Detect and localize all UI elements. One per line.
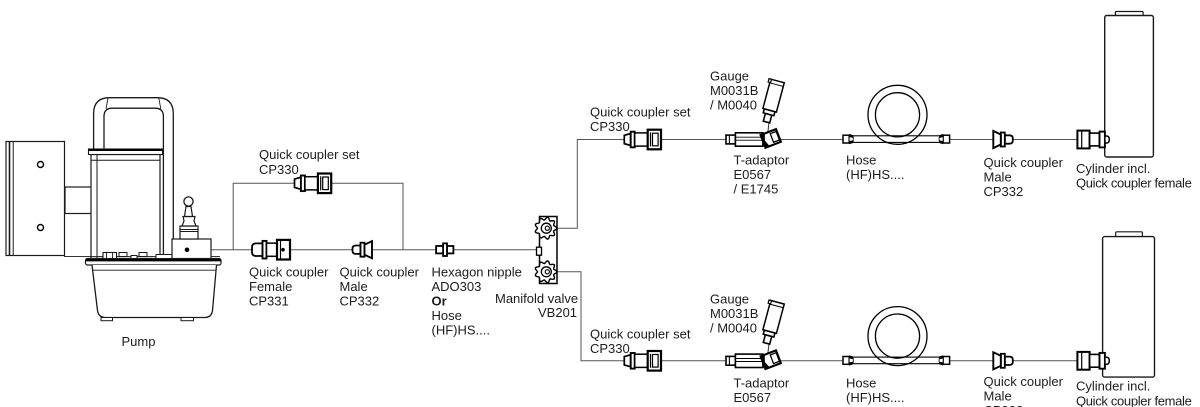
cylinder lower <box>1103 232 1155 377</box>
label manifold valve VB201 <box>495 291 578 320</box>
gauge and T-adaptor upper <box>726 79 784 148</box>
svg-text:Quick coupler set: Quick coupler set <box>590 326 691 341</box>
label T-adaptor lower <box>734 375 790 407</box>
svg-text:Hose: Hose <box>846 152 876 167</box>
label quick coupler female CP331 <box>249 264 329 308</box>
label quick coupler male upper right <box>984 155 1064 199</box>
quick coupler set CP330 lower branch <box>624 351 661 371</box>
quick coupler male upper right <box>993 131 1013 148</box>
svg-text:Male: Male <box>984 388 1012 403</box>
svg-text:/ M0040: / M0040 <box>710 320 757 335</box>
svg-text:/ M0040: / M0040 <box>710 97 757 112</box>
svg-text:Gauge: Gauge <box>710 291 749 306</box>
svg-text:CP332: CP332 <box>984 184 1024 199</box>
svg-text:(HF)HS....: (HF)HS.... <box>846 167 905 182</box>
svg-text:Quick coupler: Quick coupler <box>984 155 1064 170</box>
wire bypass loop <box>233 183 403 249</box>
svg-text:Hexagon nipple: Hexagon nipple <box>432 264 522 279</box>
cylinder coupler lower <box>1077 352 1109 370</box>
label quick coupler set CP330 upper <box>590 104 691 133</box>
cylinder coupler upper <box>1077 131 1109 149</box>
svg-text:Quick coupler female: Quick coupler female <box>1076 393 1192 407</box>
svg-text:CP332: CP332 <box>984 403 1024 407</box>
label T-adaptor upper <box>734 152 790 196</box>
svg-text:Cylinder incl.: Cylinder incl. <box>1076 379 1150 394</box>
pump motor top plate <box>89 149 163 155</box>
label quick coupler set CP330 (loop) <box>259 147 360 177</box>
wire manifold to upper branch <box>557 140 1077 229</box>
svg-text:Quick coupler set: Quick coupler set <box>590 104 691 119</box>
label gauge upper <box>710 68 758 112</box>
hexagon nipple ADO303 <box>436 243 453 256</box>
label hexagon nipple <box>432 264 522 337</box>
hose lower <box>843 307 950 366</box>
svg-text:M0031B: M0031B <box>710 306 758 321</box>
svg-text:Manifold valve: Manifold valve <box>495 291 578 306</box>
svg-text:Quick coupler female: Quick coupler female <box>1076 175 1192 190</box>
quick coupler male lower right <box>993 352 1013 369</box>
hose upper <box>843 85 950 144</box>
svg-text:Quick coupler: Quick coupler <box>249 264 329 279</box>
manifold valve VB201 <box>535 217 557 284</box>
quick coupler male CP332 <box>353 241 373 258</box>
svg-text:Male: Male <box>340 279 368 294</box>
svg-text:Male: Male <box>984 169 1012 184</box>
quick coupler female CP331 <box>252 240 290 260</box>
label gauge lower <box>710 291 758 335</box>
svg-text:M0031B: M0031B <box>710 83 758 98</box>
svg-text:Quick coupler: Quick coupler <box>340 264 420 279</box>
pump junction box <box>65 187 97 214</box>
label quick coupler male CP332 <box>340 264 420 308</box>
svg-text:CP330: CP330 <box>590 119 630 134</box>
label quick coupler set CP330 lower <box>590 326 691 356</box>
svg-text:Female: Female <box>249 279 292 294</box>
gauge and T-adaptor lower <box>726 300 784 369</box>
label hose lower <box>846 375 905 405</box>
svg-text:E0567: E0567 <box>734 167 772 182</box>
svg-text:Quick coupler set: Quick coupler set <box>259 147 360 162</box>
label hose upper <box>846 152 905 182</box>
pump reservoir body <box>92 265 217 321</box>
svg-text:Hose: Hose <box>846 375 876 390</box>
wire pump to manifold valve <box>209 249 540 251</box>
svg-text:CP330: CP330 <box>590 341 630 356</box>
pump plate fittings <box>103 253 177 259</box>
svg-text:(HF)HS....: (HF)HS.... <box>846 390 905 405</box>
svg-text:CP331: CP331 <box>249 293 289 308</box>
svg-text:/ E1745: / E1745 <box>734 181 779 196</box>
svg-text:Or: Or <box>432 293 447 308</box>
cylinder upper <box>1105 12 1154 158</box>
pump mounting bracket <box>6 142 65 256</box>
label quick coupler male lower right <box>984 374 1064 407</box>
svg-text:CP330: CP330 <box>259 162 299 177</box>
pump <box>6 98 221 349</box>
quick coupler set CP330 on bypass loop <box>295 174 332 194</box>
svg-text:Quick coupler: Quick coupler <box>984 374 1064 389</box>
pump handle <box>94 98 174 259</box>
wire manifold to lower branch <box>557 272 1077 361</box>
svg-text:ADO303: ADO303 <box>432 279 482 294</box>
label cylinder upper <box>1076 161 1192 191</box>
svg-text:E0567: E0567 <box>734 390 772 405</box>
label cylinder lower <box>1076 379 1192 407</box>
svg-text:Hose: Hose <box>432 308 462 323</box>
svg-text:Pump: Pump <box>122 334 156 349</box>
svg-text:VB201: VB201 <box>538 305 577 320</box>
svg-text:T-adaptor: T-adaptor <box>734 152 790 167</box>
svg-text:T-adaptor: T-adaptor <box>734 375 790 390</box>
svg-text:(HF)HS....: (HF)HS.... <box>432 322 491 337</box>
pump motor body <box>91 155 160 259</box>
svg-text:CP332: CP332 <box>340 293 380 308</box>
svg-text:Cylinder incl.: Cylinder incl. <box>1076 161 1150 176</box>
svg-text:Gauge: Gauge <box>710 68 749 83</box>
quick coupler set CP330 upper branch <box>624 130 661 150</box>
pump reservoir top plate <box>64 257 221 265</box>
pump release valve assembly <box>172 197 211 259</box>
